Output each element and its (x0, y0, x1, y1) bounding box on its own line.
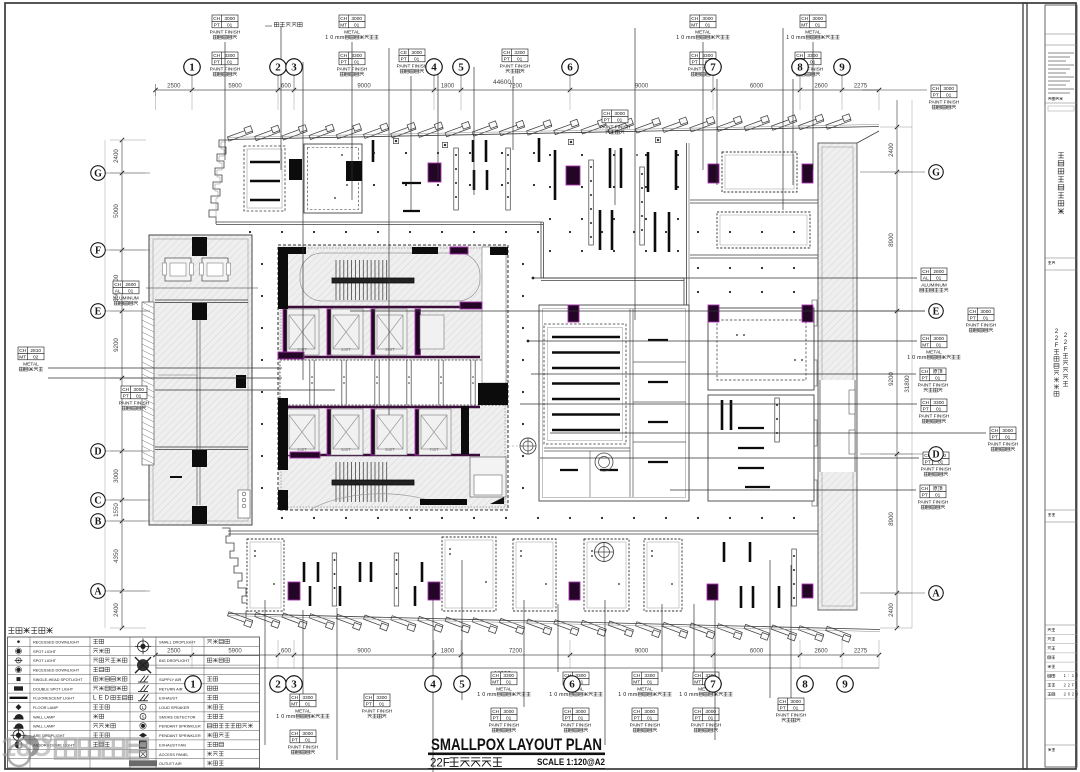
svg-text:1: 1 (325, 35, 328, 41)
svg-text:1800: 1800 (441, 649, 455, 655)
svg-text:01: 01 (793, 705, 799, 711)
svg-text:PT: PT (214, 22, 220, 28)
svg-text:01: 01 (647, 679, 653, 685)
svg-text:C: C (94, 495, 101, 506)
svg-text:METAL: METAL (496, 686, 512, 692)
svg-text:PAINT FINISH: PAINT FINISH (919, 413, 950, 419)
svg-text:METAL: METAL (695, 29, 711, 35)
svg-text:CH: CH (503, 50, 510, 56)
svg-text:240T: 240T (297, 347, 307, 352)
svg-text:4: 4 (430, 679, 436, 691)
svg-text:ALUMINUM: ALUMINUM (113, 295, 139, 301)
svg-text:0: 0 (482, 692, 485, 698)
svg-text:8900: 8900 (888, 233, 895, 247)
svg-text:01: 01 (506, 679, 512, 685)
svg-text:CH: CH (291, 731, 298, 737)
svg-text:4: 4 (431, 62, 437, 74)
svg-text:G: G (94, 168, 102, 179)
svg-text:9: 9 (839, 62, 845, 74)
svg-text:3000: 3000 (644, 709, 655, 715)
svg-text:METAL: METAL (926, 349, 942, 355)
svg-text:CH: CH (340, 53, 347, 59)
svg-text:PT: PT (123, 393, 129, 399)
svg-text:3000: 3000 (933, 336, 944, 342)
svg-text:240T: 240T (385, 347, 395, 352)
svg-text:D: D (94, 446, 101, 457)
svg-text:2400: 2400 (113, 149, 120, 163)
svg-text:E: E (99, 696, 103, 702)
svg-text:CH: CH (492, 673, 499, 679)
svg-text:3000: 3000 (790, 699, 801, 705)
svg-text:01: 01 (506, 715, 512, 721)
svg-text:PAINT FINISH: PAINT FINISH (600, 124, 631, 130)
svg-text:01: 01 (1005, 434, 1011, 440)
svg-text:BIG DROPLIGHT: BIG DROPLIGHT (159, 658, 190, 663)
svg-text:RETURN AIR: RETURN AIR (159, 686, 183, 691)
svg-text:1: 1 (679, 692, 682, 698)
svg-text:3000: 3000 (812, 16, 823, 22)
svg-text:1800: 1800 (441, 84, 455, 90)
svg-text:01: 01 (705, 22, 711, 28)
svg-text:m: m (691, 35, 696, 41)
svg-text:3000: 3000 (133, 387, 144, 393)
svg-text:9200: 9200 (113, 338, 120, 352)
svg-text:22F: 22F (430, 758, 450, 770)
svg-text:CH: CH (564, 709, 571, 715)
svg-text:METAL: METAL (637, 686, 653, 692)
svg-text:OUTLET AIR: OUTLET AIR (159, 761, 182, 766)
svg-text:2500: 2500 (167, 649, 181, 655)
svg-text:MT: MT (291, 701, 298, 707)
svg-text:PT: PT (504, 56, 510, 62)
svg-text:METAL: METAL (23, 361, 39, 367)
svg-text:2275: 2275 (854, 84, 868, 90)
svg-text:PAINT FINISH: PAINT FINISH (988, 441, 1019, 447)
svg-text:3: 3 (291, 62, 297, 74)
svg-text:1: 1 (618, 692, 621, 698)
svg-text:F: F (1055, 342, 1059, 349)
svg-text:m: m (340, 35, 345, 41)
svg-text:PENDANT SPRINKLER: PENDANT SPRINKLER (159, 733, 201, 738)
svg-text:0: 0 (623, 692, 626, 698)
svg-text:02: 02 (33, 354, 39, 360)
svg-text:AL: AL (115, 288, 121, 294)
svg-text:CH: CH (291, 695, 298, 701)
svg-text:CH: CH (969, 309, 976, 315)
svg-text:2: 2 (1064, 339, 1068, 346)
svg-text:LOUD SPEAKER: LOUD SPEAKER (159, 705, 189, 710)
svg-text:0: 0 (791, 35, 794, 41)
svg-text:CH: CH (694, 673, 701, 679)
svg-text:PT: PT (341, 59, 347, 65)
svg-text:A: A (932, 588, 940, 599)
svg-text:PAINT FINISH: PAINT FINISH (929, 99, 960, 105)
svg-text:3000: 3000 (351, 16, 362, 22)
svg-text:3300: 3300 (224, 53, 235, 59)
svg-text:SMALL DROPLIGHT: SMALL DROPLIGHT (159, 640, 196, 645)
svg-text:CH: CH (691, 16, 698, 22)
svg-text:AL: AL (923, 275, 929, 281)
svg-text:1: 1 (786, 35, 789, 41)
svg-text:SINGLE-HEAD SPOTLIGHT: SINGLE-HEAD SPOTLIGHT (33, 677, 83, 682)
svg-text:CH: CH (779, 699, 786, 705)
svg-text:0: 0 (684, 692, 687, 698)
svg-text:F: F (1064, 346, 1068, 353)
svg-text:RECESSED DOWNLIGHT: RECESSED DOWNLIGHT (33, 640, 80, 645)
svg-text:1: 1 (276, 714, 279, 720)
svg-text:PAINT FINISH: PAINT FINISH (119, 400, 150, 406)
svg-text:SPOT LIGHT: SPOT LIGHT (33, 658, 57, 663)
svg-text:6: 6 (569, 679, 575, 691)
svg-text:G: G (932, 167, 940, 178)
svg-text:9: 9 (842, 679, 848, 691)
svg-text:8900: 8900 (888, 512, 895, 526)
svg-text::: : (1068, 673, 1069, 678)
svg-text:2400: 2400 (888, 143, 895, 157)
svg-text:3000: 3000 (503, 709, 514, 715)
svg-text:3300: 3300 (933, 400, 944, 406)
svg-text:CH: CH (921, 369, 928, 375)
svg-text:740T: 740T (429, 447, 439, 452)
svg-text:2: 2 (1055, 328, 1059, 335)
svg-text:01: 01 (227, 22, 233, 28)
svg-text:6: 6 (567, 62, 573, 74)
svg-text:PT: PT (695, 715, 701, 721)
svg-text:EXHAUST FAN: EXHAUST FAN (159, 742, 186, 747)
svg-text:PAINT FINISH: PAINT FINISH (966, 322, 997, 328)
svg-text:D: D (932, 449, 939, 460)
svg-text:9000: 9000 (635, 649, 649, 655)
svg-text:31800: 31800 (904, 375, 911, 393)
svg-text:PAINT FINISH: PAINT FINISH (500, 63, 531, 69)
svg-text:PT: PT (366, 701, 372, 707)
svg-text:CH: CH (633, 709, 640, 715)
svg-text:PAINT FINISH: PAINT FINISH (288, 744, 319, 750)
svg-text:5: 5 (458, 62, 464, 74)
svg-text:600: 600 (281, 649, 292, 655)
svg-text:CH: CH (801, 16, 808, 22)
svg-text:3: 3 (291, 679, 297, 691)
svg-text:m: m (922, 355, 927, 361)
svg-text:METAL: METAL (805, 29, 821, 35)
svg-text:240T: 240T (341, 347, 351, 352)
svg-text:CH: CH (921, 486, 928, 492)
svg-text:1: 1 (189, 62, 195, 74)
svg-text:PT: PT (214, 59, 220, 65)
svg-text:01: 01 (815, 22, 821, 28)
svg-text:PT: PT (922, 375, 928, 381)
svg-text:2275: 2275 (854, 649, 868, 655)
svg-text:01: 01 (936, 275, 942, 281)
svg-text:01: 01 (354, 59, 360, 65)
svg-text:3300: 3300 (644, 673, 655, 679)
svg-text:3000: 3000 (1002, 428, 1013, 434)
svg-text:2400: 2400 (888, 603, 895, 617)
svg-text:01: 01 (935, 375, 941, 381)
svg-text:PAINT FINISH: PAINT FINISH (630, 722, 661, 728)
svg-text:原顶: 原顶 (933, 486, 943, 492)
svg-text:PT: PT (692, 59, 698, 65)
svg-text:1550: 1550 (113, 503, 120, 517)
svg-text:PAINT FINISH: PAINT FINISH (918, 499, 949, 505)
svg-text:2810: 2810 (30, 348, 41, 354)
svg-text:2: 2 (1055, 335, 1059, 342)
svg-text:01: 01 (935, 492, 941, 498)
svg-text:CH: CH (492, 709, 499, 715)
svg-text:01: 01 (936, 406, 942, 412)
svg-text:600: 600 (281, 84, 292, 90)
svg-text:EXHAUST: EXHAUST (159, 696, 178, 701)
svg-text:01: 01 (227, 59, 233, 65)
svg-text:PT: PT (925, 459, 931, 465)
svg-text:CE: CE (400, 50, 407, 56)
svg-text:MT: MT (922, 342, 929, 348)
svg-text:PENDANT SPRINKLER: PENDANT SPRINKLER (159, 724, 201, 729)
svg-text:m: m (633, 692, 638, 698)
svg-text:SUPPLY AIR: SUPPLY AIR (159, 677, 182, 682)
svg-text:CH: CH (19, 348, 26, 354)
svg-text:1: 1 (676, 35, 679, 41)
svg-text:CH: CH (340, 16, 347, 22)
svg-text:CH: CH (114, 282, 121, 288)
svg-text:2: 2 (1064, 332, 1068, 339)
svg-text:3000: 3000 (980, 309, 991, 315)
svg-text:1: 1 (907, 355, 910, 361)
svg-text:7: 7 (710, 62, 716, 74)
svg-text:01: 01 (128, 288, 134, 294)
svg-text:CH: CH (694, 709, 701, 715)
svg-text:640T: 640T (385, 447, 395, 452)
svg-text:5900: 5900 (228, 84, 242, 90)
svg-text:01: 01 (578, 715, 584, 721)
svg-text:01: 01 (305, 737, 311, 743)
svg-text:m: m (801, 35, 806, 41)
svg-text:SCALE 1:120@A2: SCALE 1:120@A2 (537, 757, 605, 768)
svg-text:ALUMINUM: ALUMINUM (921, 282, 947, 288)
svg-text:9000: 9000 (357, 84, 371, 90)
svg-text:m: m (291, 714, 296, 720)
svg-text:PT: PT (565, 715, 571, 721)
svg-text:CH: CH (991, 428, 998, 434)
svg-text:MT: MT (691, 22, 698, 28)
svg-text:MT: MT (19, 354, 26, 360)
svg-text:PAINT FINISH: PAINT FINISH (397, 63, 428, 69)
svg-text:PT: PT (923, 406, 929, 412)
svg-text:8: 8 (797, 62, 803, 74)
svg-text:3300: 3300 (702, 53, 713, 59)
svg-text:PT: PT (401, 56, 407, 62)
svg-text:RECESSED DOWNLIGHT: RECESSED DOWNLIGHT (33, 668, 80, 673)
svg-text:PT: PT (634, 715, 640, 721)
svg-text:WALL LAMP: WALL LAMP (33, 724, 55, 729)
svg-text:3000: 3000 (614, 111, 625, 117)
svg-text:01: 01 (946, 92, 952, 98)
svg-text:5000: 5000 (113, 204, 120, 218)
svg-text:3300: 3300 (514, 50, 525, 56)
svg-text:SPOT LIGHT: SPOT LIGHT (33, 649, 57, 654)
svg-text:E: E (95, 306, 102, 317)
svg-text:3000: 3000 (113, 469, 120, 483)
svg-text:0: 0 (281, 714, 284, 720)
svg-text:MT: MT (492, 679, 499, 685)
svg-text:01: 01 (936, 342, 942, 348)
svg-text:01: 01 (305, 701, 311, 707)
svg-text:01: 01 (647, 715, 653, 721)
svg-text:CH: CH (603, 111, 610, 117)
svg-text:m: m (492, 692, 497, 698)
svg-text:01: 01 (708, 715, 714, 721)
svg-text:S: S (141, 715, 144, 720)
svg-text:PAINT FINISH: PAINT FINISH (362, 708, 393, 714)
svg-text:44600: 44600 (493, 79, 511, 86)
svg-text:2: 2 (275, 62, 281, 74)
svg-text:3000: 3000 (575, 709, 586, 715)
svg-text:2600: 2600 (814, 84, 828, 90)
svg-text:PAINT FINISH: PAINT FINISH (561, 722, 592, 728)
svg-text:METAL: METAL (295, 708, 311, 714)
svg-text:WALL LAMP: WALL LAMP (33, 714, 55, 719)
svg-text:PT: PT (604, 117, 610, 123)
svg-text:CH: CH (122, 387, 129, 393)
svg-text:PT: PT (992, 434, 998, 440)
svg-text:CH: CH (922, 336, 929, 342)
svg-text:9000: 9000 (635, 84, 649, 90)
svg-text:8: 8 (802, 679, 808, 691)
svg-text:2600: 2600 (814, 649, 828, 655)
svg-text:PT: PT (493, 715, 499, 721)
svg-text:CH: CH (633, 673, 640, 679)
svg-text:2800: 2800 (933, 269, 944, 275)
svg-text:01: 01 (379, 701, 385, 707)
svg-text:01: 01 (617, 117, 623, 123)
svg-text:B: B (95, 516, 102, 527)
svg-text:m: m (694, 692, 699, 698)
svg-text:0: 0 (330, 35, 333, 41)
svg-text:MT: MT (801, 22, 808, 28)
svg-text:PAINT FINISH: PAINT FINISH (691, 722, 722, 728)
svg-text:1: 1 (477, 692, 480, 698)
svg-text:0: 0 (554, 692, 557, 698)
svg-text:PT: PT (933, 92, 939, 98)
svg-text:MT: MT (694, 679, 701, 685)
svg-text:5900: 5900 (228, 649, 242, 655)
svg-text:E: E (933, 306, 940, 317)
svg-text:MT: MT (340, 22, 347, 28)
svg-text:原顶: 原顶 (933, 369, 943, 375)
svg-text:PT: PT (970, 315, 976, 321)
svg-text:PT: PT (780, 705, 786, 711)
svg-text:PAINT FINISH: PAINT FINISH (776, 712, 807, 718)
svg-text:PT: PT (922, 492, 928, 498)
svg-text:0: 0 (912, 355, 915, 361)
svg-text:CH: CH (796, 53, 803, 59)
svg-text:5: 5 (459, 679, 465, 691)
svg-text:4350: 4350 (113, 549, 120, 563)
svg-text:01: 01 (414, 56, 420, 62)
svg-text:3000: 3000 (224, 16, 235, 22)
svg-text:F: F (95, 245, 101, 256)
svg-text:ACCESS PANEL: ACCESS PANEL (159, 752, 189, 757)
svg-text:3000: 3000 (702, 16, 713, 22)
svg-text:METAL: METAL (344, 29, 360, 35)
svg-text:CH: CH (213, 53, 220, 59)
svg-text:01: 01 (354, 22, 360, 28)
svg-text:6000: 6000 (750, 84, 764, 90)
svg-text:2400: 2400 (113, 603, 120, 617)
svg-text:CH: CH (922, 269, 929, 275)
svg-text:3000: 3000 (302, 731, 313, 737)
svg-text:FLUORESCENT LIGHT: FLUORESCENT LIGHT (33, 696, 75, 701)
svg-text:A: A (94, 586, 102, 597)
svg-text:CH: CH (213, 16, 220, 22)
svg-text:1: 1 (549, 692, 552, 698)
svg-text:01: 01 (983, 315, 989, 321)
svg-text:SMALLPOX LAYOUT PLAN: SMALLPOX LAYOUT PLAN (431, 736, 602, 754)
svg-text:540T: 540T (341, 447, 351, 452)
svg-text:CH: CH (691, 53, 698, 59)
svg-text:PT: PT (292, 737, 298, 743)
svg-text:01: 01 (136, 393, 142, 399)
svg-text:PAINT FINISH: PAINT FINISH (210, 29, 241, 35)
svg-text:SMOKE DETECTOR: SMOKE DETECTOR (159, 714, 196, 719)
svg-text:CH: CH (922, 400, 929, 406)
svg-text:7: 7 (710, 679, 716, 691)
svg-text:7200: 7200 (509, 649, 523, 655)
svg-text:9000: 9000 (357, 649, 371, 655)
svg-text:FLOOR LAMP: FLOOR LAMP (33, 705, 58, 710)
svg-text:1: 1 (190, 679, 196, 691)
svg-text:CH: CH (932, 86, 939, 92)
svg-text:2500: 2500 (167, 84, 181, 90)
svg-text:3000: 3000 (411, 50, 422, 56)
svg-text:PAINT FINISH: PAINT FINISH (918, 382, 949, 388)
svg-text:440T: 440T (297, 447, 307, 452)
svg-text:0: 0 (681, 35, 684, 41)
svg-text:01: 01 (517, 56, 523, 62)
svg-text:PAINT FINISH: PAINT FINISH (489, 722, 520, 728)
svg-text:CH: CH (365, 695, 372, 701)
svg-text:DOUBLE SPOT LIGHT: DOUBLE SPOT LIGHT (33, 686, 74, 691)
svg-text:3300: 3300 (376, 695, 387, 701)
svg-text:D: D (105, 696, 110, 702)
svg-text:m: m (564, 692, 569, 698)
svg-text:3300: 3300 (351, 53, 362, 59)
svg-text:PAINT FINISH: PAINT FINISH (921, 466, 952, 472)
svg-text:3300: 3300 (503, 673, 514, 679)
svg-text:MT: MT (633, 679, 640, 685)
svg-text:6000: 6000 (750, 649, 764, 655)
svg-text:3000: 3000 (943, 86, 954, 92)
svg-text:2: 2 (275, 679, 281, 691)
svg-text:2600: 2600 (125, 282, 136, 288)
svg-text:3300: 3300 (302, 695, 313, 701)
